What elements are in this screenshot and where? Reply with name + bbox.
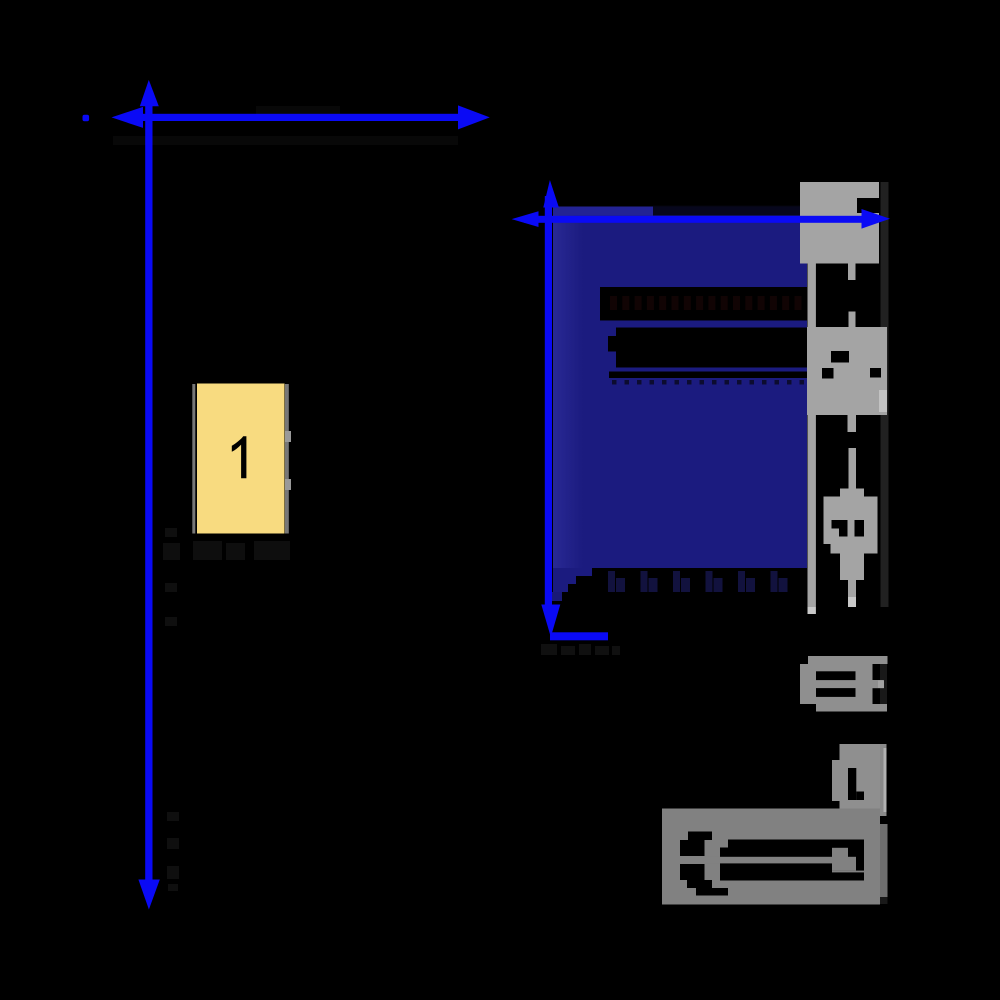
ghost text under small axis corner — [541, 644, 620, 655]
teeth row below panel (ghost glyph pairs) — [608, 571, 788, 592]
ghost text below marker box — [163, 541, 290, 560]
small axis corner segment — [550, 632, 608, 640]
slot band 1 — [600, 287, 807, 321]
mid stub upper — [848, 264, 856, 281]
shaft bars — [720, 840, 864, 881]
origin dot — [83, 115, 90, 121]
navy panel body — [553, 206, 807, 569]
stub below G — [848, 415, 857, 432]
light smear on G — [879, 390, 887, 412]
left thin rail — [808, 263, 816, 607]
mid stub lower — [849, 312, 856, 328]
marker 1 box — [197, 384, 285, 534]
small axis y arrow — [541, 180, 560, 637]
dark dot row — [612, 380, 804, 385]
navy panel bottom-left staircase — [550, 568, 592, 601]
hole black marks — [832, 520, 848, 529]
small axis x arrow — [512, 209, 890, 229]
column block G — [807, 327, 887, 415]
gray profile column: dark backing strip — [881, 182, 889, 607]
bracket leg — [832, 744, 888, 904]
thin slot line 3 — [609, 372, 807, 379]
mid rail bottom — [848, 580, 856, 607]
column top block — [800, 182, 879, 264]
ghost text row under main x-arrow — [113, 106, 458, 145]
pin row in band 1 — [610, 296, 802, 310]
G black square left — [822, 368, 834, 379]
socket arcs — [688, 832, 712, 841]
G black slot — [831, 351, 849, 363]
mid rail lower — [849, 448, 857, 489]
hole tab top — [840, 489, 864, 497]
marker 1 label — [232, 436, 247, 478]
G black square right — [870, 368, 881, 378]
slot band 2 — [616, 328, 807, 368]
main axis x arrow — [112, 105, 490, 129]
bolt slab — [662, 809, 880, 905]
marker side rails — [192, 384, 195, 534]
hole tab bottom — [840, 554, 864, 581]
ghost text beside y-arrow — [167, 812, 179, 891]
column top notch — [857, 198, 879, 213]
ghost tick labels along y-arrow — [165, 528, 177, 626]
hole blob — [824, 497, 878, 545]
nut block — [800, 656, 888, 712]
main axis y arrow — [138, 80, 159, 910]
band 2 left bump — [608, 336, 616, 352]
